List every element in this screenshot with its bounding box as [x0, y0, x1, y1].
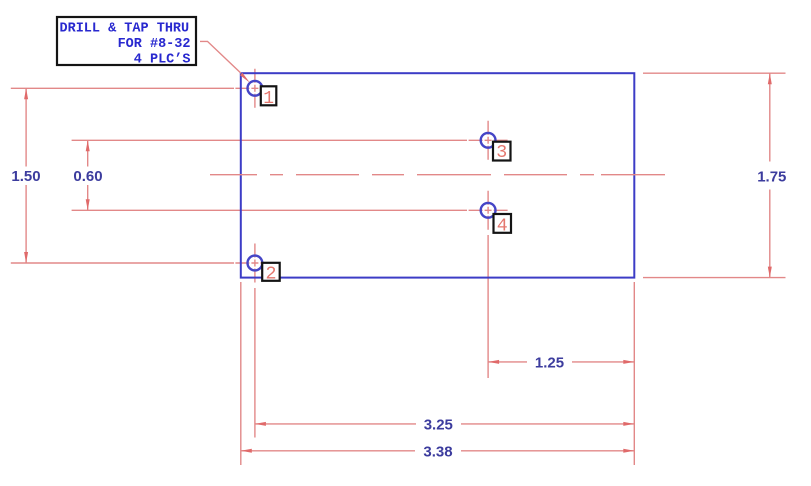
dimension line 3.38 — [241, 449, 635, 453]
extension line hole column vertical (x=254.9) — [254, 288, 256, 438]
center mark hole 1 — [235, 69, 274, 108]
svg-text:2: 2 — [266, 264, 277, 284]
svg-text:3: 3 — [496, 143, 507, 163]
svg-text:1.25: 1.25 — [535, 354, 564, 371]
svg-text:4: 4 — [497, 216, 508, 236]
centerline — [210, 174, 665, 176]
dimension text 3.25 — [416, 415, 461, 434]
svg-text:0.60: 0.60 — [73, 168, 102, 185]
balloon 3 — [493, 142, 511, 164]
dimension line 1.50 — [24, 88, 28, 263]
dimension text 0.60 — [71, 167, 106, 186]
svg-text:3.38: 3.38 — [423, 443, 452, 460]
hole 4 circle — [481, 203, 496, 218]
dimension line 1.75 — [768, 73, 772, 277]
dimension text 3.38 — [415, 442, 461, 461]
extension line hole3 column vertical (x=488.1) — [487, 235, 489, 378]
svg-text:3.25: 3.25 — [424, 416, 453, 433]
svg-text:FOR #8-32: FOR #8-32 — [118, 37, 191, 52]
balloon 4 — [494, 214, 512, 236]
extension line 1.50 top (y=88.3) — [11, 87, 234, 89]
dimension line 0.60 — [86, 140, 90, 210]
extension line 1.50 bottom (y=263) — [11, 262, 234, 264]
dimension line 3.25 — [255, 422, 634, 426]
hole 3 circle — [481, 133, 496, 148]
extension line right edge vertical (x=634.3) — [633, 282, 635, 465]
dimension line 1.25 — [488, 360, 634, 364]
hole 2 circle — [248, 256, 263, 271]
dimension text 1.25 — [527, 353, 572, 372]
part outline rectangle — [241, 73, 635, 277]
dimension text 1.50 — [9, 167, 43, 186]
balloon 1 — [261, 86, 277, 109]
extension line 0.60 top (y=140.3) — [72, 139, 467, 141]
svg-text:1.75: 1.75 — [757, 168, 786, 185]
extension line 1.75 top (y=73.2) — [643, 72, 786, 74]
svg-text:1.50: 1.50 — [11, 168, 40, 185]
center mark hole 4 — [469, 191, 508, 230]
svg-text:1: 1 — [263, 89, 274, 109]
leader line from note to hole 1 — [200, 41, 250, 82]
svg-text:4 PLC’S: 4 PLC’S — [134, 52, 191, 67]
center mark hole 3 — [469, 121, 508, 160]
hole 1 circle — [248, 81, 263, 96]
center mark hole 2 — [235, 244, 274, 283]
extension line left edge vertical (x=240.8) — [240, 282, 242, 465]
note box DRILL & TAP THRU — [57, 17, 196, 67]
extension line 0.60 bottom (y=210.3) — [72, 209, 467, 211]
balloon 2 — [262, 263, 280, 285]
extension line 1.75 bottom (y=277.6) — [643, 277, 786, 279]
dimension text 1.75 — [755, 162, 789, 190]
svg-text:DRILL & TAP THRU: DRILL & TAP THRU — [60, 22, 190, 37]
